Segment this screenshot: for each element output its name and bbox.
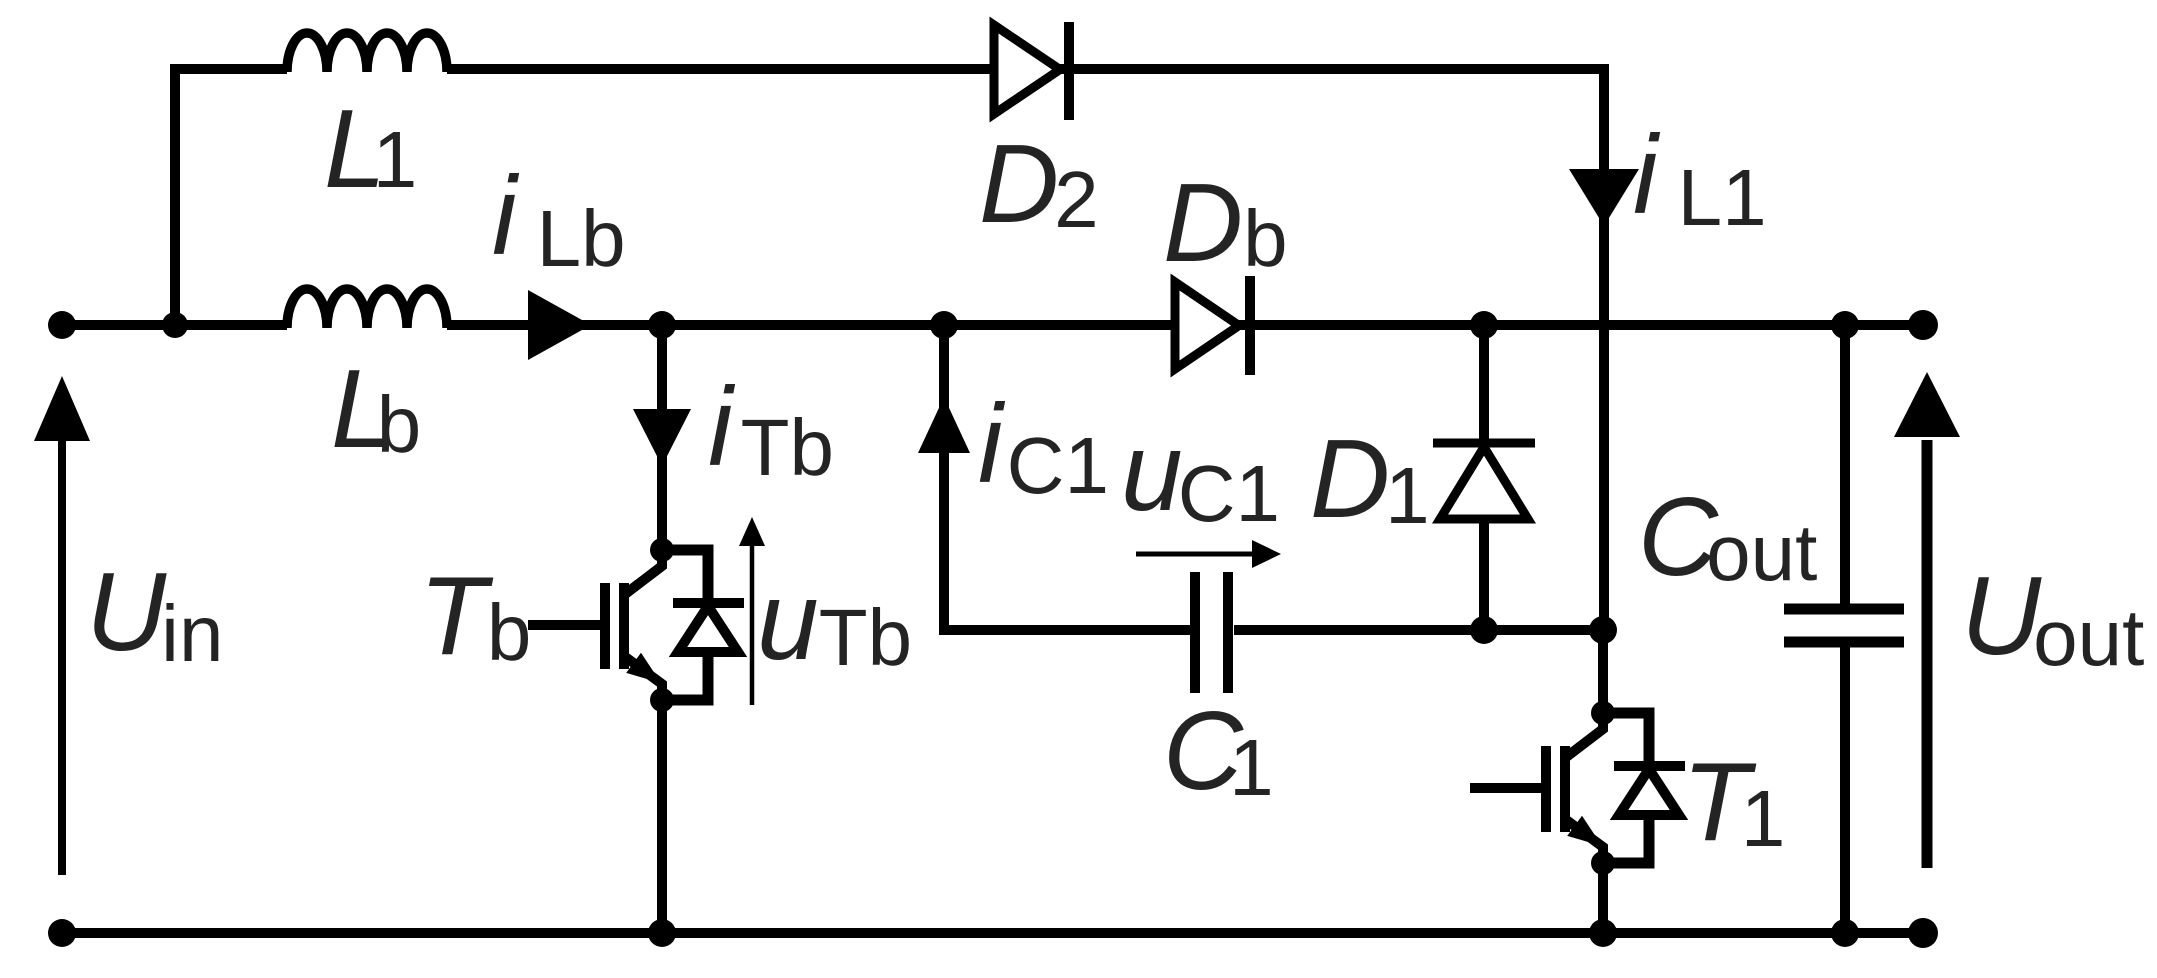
main rail wire (60, 320, 1923, 330)
voltage arrow uTb (739, 517, 765, 705)
diode Db (1175, 276, 1250, 375)
wire D1 branch (1479, 325, 1489, 630)
node output top (1908, 310, 1938, 340)
node D1 bottom (1470, 616, 1498, 644)
current arrow iL1 (1569, 169, 1639, 226)
node Tb top (648, 311, 676, 339)
wire Tb collector branch (657, 325, 667, 550)
transistor Tb (IGBT with antiparallel diode) (528, 538, 744, 712)
transistor T1 (IGBT with antiparallel diode) (1470, 701, 1685, 875)
wire top-left loop: vertical riser and top wire to L1 (175, 69, 287, 325)
node junction L1/Lb (162, 312, 188, 338)
current arrow iTb (633, 409, 691, 466)
diode D2 (994, 22, 1069, 120)
capacitor Cout (1784, 609, 1904, 642)
current arrow iLb (528, 290, 591, 360)
wire C1 branch left (iC1 riser) (944, 325, 1190, 630)
current arrow iC1 (918, 397, 970, 453)
wire T1 emitter to bottom rail (1598, 863, 1608, 933)
wire top from L1 through D2 to right column (447, 69, 1604, 630)
node Tb bottom (648, 919, 676, 947)
wire Cout bottom stub (1840, 643, 1850, 933)
bottom rail wire (60, 928, 1923, 938)
wire Cout top stub (1840, 325, 1850, 611)
wire T1 collector from C1 node (1598, 630, 1608, 713)
node output bottom (1908, 918, 1938, 948)
node T1 bottom (1589, 919, 1617, 947)
inductor Lb (287, 289, 447, 328)
voltage arrow uC1 (1136, 540, 1281, 568)
voltage arrow Uout (1894, 372, 1960, 868)
wire C1 branch right (1234, 625, 1604, 635)
capacitor C1 (1195, 572, 1228, 693)
node T1 top branch (1589, 616, 1617, 644)
node Cout top (1831, 311, 1859, 339)
inductor L1 (287, 33, 447, 72)
diode D1 (1433, 443, 1535, 519)
node input bottom (48, 919, 76, 947)
node input top (48, 311, 76, 339)
node D1 top (1470, 311, 1498, 339)
node Cout bottom (1831, 919, 1859, 947)
node C1 top (930, 311, 958, 339)
wire Tb emitter to bottom rail (657, 700, 667, 933)
voltage arrow Uin (34, 376, 90, 875)
